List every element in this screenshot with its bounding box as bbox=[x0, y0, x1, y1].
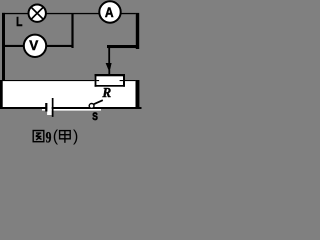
switch S1 bbox=[89, 100, 103, 108]
wire: white panel right border bbox=[136, 80, 140, 109]
wire: bottom horizontal bbox=[0, 107, 142, 109]
rheostat slider arrow bbox=[106, 63, 112, 73]
wire stub inside rheostat left bbox=[96, 80, 99, 81]
battery positive plate (tall thin) bbox=[52, 98, 54, 117]
rheostat slider stem bbox=[108, 45, 110, 65]
ammeter A1 bbox=[99, 1, 120, 22]
battery gap white notch bbox=[47, 103, 52, 115]
wire: left vertical edge bbox=[2, 13, 5, 81]
white panel of battery area bbox=[0, 81, 136, 107]
svg-text:S: S bbox=[92, 111, 98, 123]
wire: top horizontal run bbox=[2, 13, 136, 14]
wire: white panel top border line bbox=[0, 80, 135, 81]
wire: voltmeter branch horizontal bbox=[4, 45, 72, 47]
svg-text:): ) bbox=[73, 128, 78, 145]
lamp L1 bbox=[29, 5, 46, 22]
wire: voltmeter branch vertical tee bbox=[71, 13, 73, 48]
svg-text:9: 9 bbox=[46, 129, 52, 146]
caption glyph 甲 bbox=[60, 131, 71, 143]
svg-text:R: R bbox=[101, 85, 111, 100]
caption glyph 图 bbox=[33, 131, 44, 142]
svg-text:L: L bbox=[16, 15, 22, 29]
rheostat R1 body bbox=[95, 74, 125, 87]
wire: slider connector bar bbox=[107, 45, 139, 48]
wire stub inside rheostat right bbox=[120, 80, 123, 81]
svg-text:A: A bbox=[105, 5, 114, 20]
wire: right vertical from top corner bbox=[136, 13, 139, 49]
white strip below bottom wire bbox=[42, 109, 101, 111]
svg-text:(: ( bbox=[53, 128, 59, 145]
wire: white panel left border bbox=[0, 80, 3, 107]
voltmeter V1 bbox=[24, 35, 46, 57]
svg-text:V: V bbox=[29, 38, 38, 53]
battery negative plate (short thick) bbox=[45, 103, 47, 112]
